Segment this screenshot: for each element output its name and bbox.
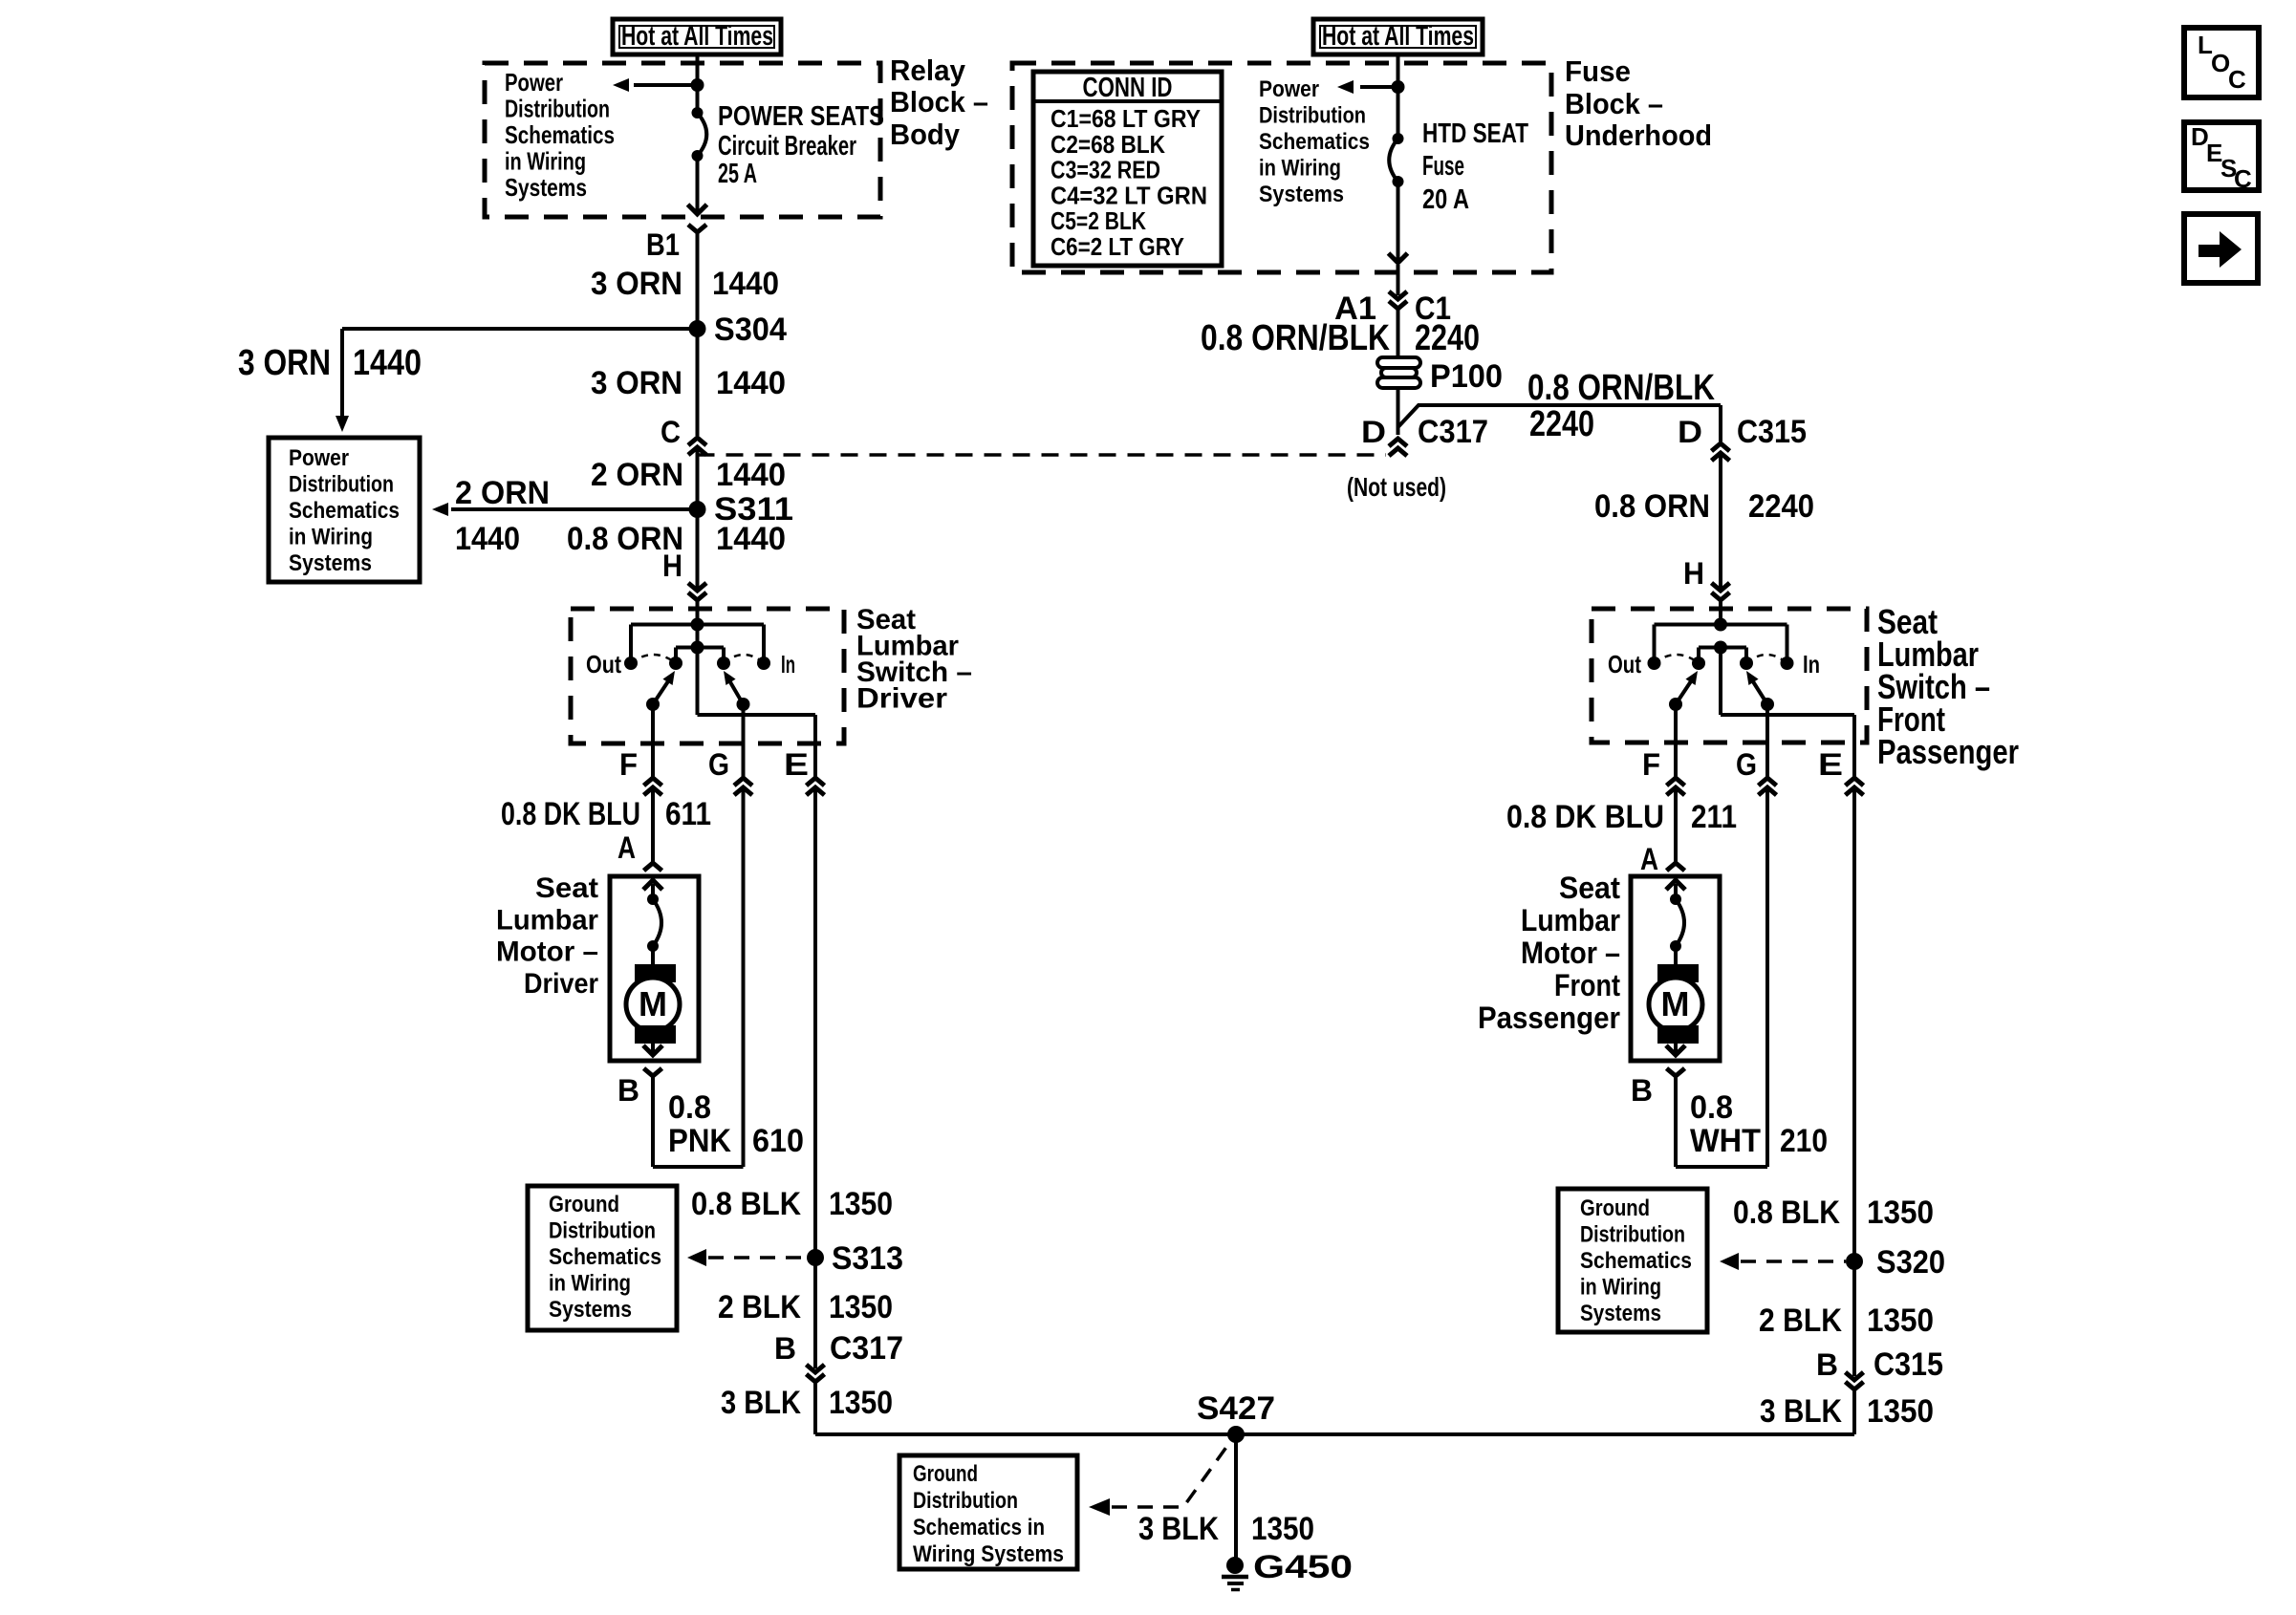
svg-text:1350: 1350 — [1251, 1511, 1314, 1547]
svg-text:2240: 2240 — [1415, 318, 1480, 358]
svg-text:POWER SEATS: POWER SEATS — [718, 101, 884, 132]
svg-text:Motor –: Motor – — [496, 937, 598, 968]
svg-text:1440: 1440 — [353, 343, 422, 383]
svg-text:210: 210 — [1780, 1123, 1828, 1159]
svg-text:2 ORN: 2 ORN — [591, 457, 683, 493]
svg-text:CONN ID: CONN ID — [1083, 73, 1173, 103]
svg-text:S427: S427 — [1197, 1390, 1275, 1427]
svg-text:Schematics: Schematics — [505, 120, 615, 149]
svg-text:Schematics: Schematics — [1259, 129, 1370, 155]
svg-text:S320: S320 — [1876, 1244, 1945, 1281]
svg-text:H: H — [662, 549, 682, 583]
svg-text:PNK: PNK — [668, 1123, 731, 1159]
svg-text:Relay: Relay — [890, 54, 966, 87]
svg-text:Distribution: Distribution — [1580, 1222, 1685, 1248]
svg-text:Hot at All Times: Hot at All Times — [621, 21, 773, 52]
svg-text:2240: 2240 — [1748, 488, 1814, 525]
svg-text:3 BLK: 3 BLK — [1760, 1393, 1842, 1430]
svg-text:In: In — [781, 650, 795, 678]
svg-text:Distribution: Distribution — [289, 472, 394, 498]
svg-text:Passenger: Passenger — [1478, 1001, 1620, 1035]
svg-text:610: 610 — [752, 1123, 804, 1159]
svg-text:0.8 DK BLU: 0.8 DK BLU — [1506, 799, 1664, 835]
svg-text:G: G — [708, 747, 729, 782]
svg-text:C4=32 LT GRN: C4=32 LT GRN — [1051, 181, 1207, 209]
svg-text:25 A: 25 A — [718, 159, 757, 189]
svg-text:0.8 ORN: 0.8 ORN — [1594, 488, 1710, 525]
svg-text:1350: 1350 — [829, 1289, 893, 1325]
svg-text:C6=2 LT GRY: C6=2 LT GRY — [1051, 232, 1184, 261]
svg-text:D: D — [1361, 415, 1386, 449]
svg-text:611: 611 — [665, 796, 711, 832]
svg-text:B: B — [1631, 1073, 1653, 1108]
svg-text:1440: 1440 — [716, 521, 786, 557]
svg-text:B: B — [774, 1331, 796, 1366]
svg-text:C5=2 BLK: C5=2 BLK — [1051, 206, 1146, 235]
svg-text:Lumbar: Lumbar — [1521, 903, 1620, 937]
svg-text:In: In — [1803, 650, 1820, 678]
svg-text:Underhood: Underhood — [1565, 118, 1712, 152]
svg-text:0.8 BLK: 0.8 BLK — [1733, 1195, 1840, 1231]
svg-text:3 ORN: 3 ORN — [591, 365, 682, 401]
svg-text:M: M — [639, 984, 667, 1023]
svg-text:Block –: Block – — [890, 85, 988, 118]
svg-text:2 BLK: 2 BLK — [718, 1289, 801, 1325]
svg-text:3 ORN: 3 ORN — [238, 343, 331, 383]
svg-text:C317: C317 — [1418, 414, 1488, 450]
svg-text:Distribution: Distribution — [549, 1218, 656, 1244]
svg-text:Systems: Systems — [1580, 1301, 1661, 1326]
svg-text:0.8: 0.8 — [668, 1089, 711, 1126]
svg-text:S304: S304 — [714, 312, 787, 348]
svg-text:WHT: WHT — [1690, 1123, 1761, 1159]
svg-text:Systems: Systems — [289, 550, 372, 576]
svg-text:Schematics: Schematics — [549, 1244, 661, 1270]
svg-text:Wiring Systems: Wiring Systems — [913, 1541, 1064, 1567]
svg-text:Power: Power — [1259, 76, 1319, 102]
svg-text:Motor –: Motor – — [1521, 936, 1620, 970]
svg-text:Power: Power — [505, 68, 563, 97]
svg-text:1440: 1440 — [455, 521, 520, 557]
svg-text:Distribution: Distribution — [913, 1488, 1018, 1514]
svg-text:in Wiring: in Wiring — [549, 1271, 631, 1297]
svg-text:HTD SEAT: HTD SEAT — [1422, 118, 1528, 149]
svg-text:1350: 1350 — [829, 1186, 893, 1222]
svg-text:20 A: 20 A — [1422, 184, 1469, 215]
svg-text:Driver: Driver — [856, 683, 947, 715]
svg-text:Distribution: Distribution — [505, 95, 610, 123]
svg-text:in Wiring: in Wiring — [1580, 1275, 1661, 1301]
svg-text:Distribution: Distribution — [1259, 103, 1366, 129]
svg-text:1350: 1350 — [1867, 1393, 1934, 1430]
svg-text:in Wiring: in Wiring — [289, 525, 373, 550]
svg-text:Front: Front — [1554, 968, 1620, 1002]
svg-text:Systems: Systems — [505, 173, 587, 202]
svg-text:B1: B1 — [646, 227, 680, 262]
svg-text:S313: S313 — [832, 1240, 903, 1277]
svg-text:in Wiring: in Wiring — [505, 147, 586, 176]
svg-text:1350: 1350 — [1867, 1303, 1934, 1339]
svg-text:Ground: Ground — [549, 1192, 619, 1217]
svg-text:H: H — [1683, 556, 1704, 591]
svg-text:(Not used): (Not used) — [1347, 472, 1446, 502]
svg-text:Ground: Ground — [913, 1461, 978, 1487]
svg-text:2 ORN: 2 ORN — [455, 475, 550, 511]
svg-text:Out: Out — [1608, 650, 1641, 678]
svg-text:Fuse: Fuse — [1422, 151, 1464, 182]
svg-text:C1=68 LT GRY: C1=68 LT GRY — [1051, 104, 1201, 133]
svg-text:Out: Out — [586, 650, 621, 678]
svg-text:B: B — [1816, 1347, 1838, 1382]
svg-text:Seat: Seat — [1559, 871, 1620, 905]
svg-text:211: 211 — [1691, 799, 1737, 835]
svg-text:1350: 1350 — [1867, 1195, 1934, 1231]
svg-text:0.8 BLK: 0.8 BLK — [691, 1186, 801, 1222]
svg-text:Lumbar: Lumbar — [496, 904, 598, 936]
svg-text:F: F — [619, 747, 638, 782]
svg-text:0.8 DK BLU: 0.8 DK BLU — [501, 796, 640, 832]
svg-text:E: E — [1818, 747, 1843, 782]
svg-text:1440: 1440 — [716, 365, 786, 401]
svg-text:Block –: Block – — [1565, 87, 1663, 120]
svg-text:Hot at All Times: Hot at All Times — [1322, 21, 1474, 52]
svg-text:3 BLK: 3 BLK — [1138, 1511, 1219, 1547]
svg-text:D: D — [1678, 415, 1702, 449]
svg-text:Seat: Seat — [535, 872, 598, 904]
svg-text:C317: C317 — [830, 1330, 903, 1367]
svg-text:0.8 ORN/BLK: 0.8 ORN/BLK — [1527, 368, 1715, 408]
svg-text:1440: 1440 — [716, 457, 786, 493]
svg-text:F: F — [1642, 747, 1660, 782]
svg-text:Systems: Systems — [1259, 182, 1344, 207]
svg-text:Power: Power — [289, 445, 349, 471]
svg-text:E: E — [784, 747, 809, 782]
svg-text:C: C — [661, 415, 681, 449]
svg-text:B: B — [617, 1073, 639, 1108]
svg-text:Body: Body — [890, 118, 961, 151]
svg-text:Ground: Ground — [1580, 1195, 1650, 1221]
svg-text:2 BLK: 2 BLK — [1759, 1303, 1842, 1339]
svg-text:A: A — [617, 830, 636, 865]
svg-text:Circuit Breaker: Circuit Breaker — [718, 131, 856, 161]
svg-text:Passenger: Passenger — [1877, 732, 2019, 771]
svg-text:A: A — [1640, 842, 1658, 876]
svg-text:2240: 2240 — [1529, 404, 1594, 444]
svg-text:0.8 ORN/BLK: 0.8 ORN/BLK — [1201, 318, 1390, 358]
svg-text:C: C — [2234, 164, 2252, 193]
svg-text:C: C — [2228, 65, 2246, 94]
svg-text:C315: C315 — [1874, 1346, 1943, 1383]
svg-text:M: M — [1661, 984, 1690, 1023]
svg-text:C315: C315 — [1737, 414, 1807, 450]
svg-text:0.8: 0.8 — [1690, 1089, 1733, 1126]
svg-text:P100: P100 — [1430, 358, 1503, 395]
svg-text:1440: 1440 — [712, 266, 779, 302]
svg-text:G: G — [1736, 747, 1757, 782]
svg-text:Schematics: Schematics — [289, 498, 400, 524]
svg-text:3 BLK: 3 BLK — [721, 1385, 801, 1421]
svg-text:Systems: Systems — [549, 1297, 632, 1323]
svg-text:in Wiring: in Wiring — [1259, 156, 1341, 182]
svg-text:C2=68 BLK: C2=68 BLK — [1051, 130, 1165, 159]
svg-text:C3=32 RED: C3=32 RED — [1051, 156, 1160, 184]
svg-text:Fuse: Fuse — [1565, 54, 1631, 88]
svg-text:3 ORN: 3 ORN — [591, 266, 682, 302]
svg-text:Driver: Driver — [524, 968, 598, 1000]
svg-text:1350: 1350 — [829, 1385, 893, 1421]
svg-text:G450: G450 — [1253, 1549, 1353, 1585]
svg-text:Schematics: Schematics — [1580, 1248, 1692, 1274]
svg-text:Schematics in: Schematics in — [913, 1515, 1045, 1540]
